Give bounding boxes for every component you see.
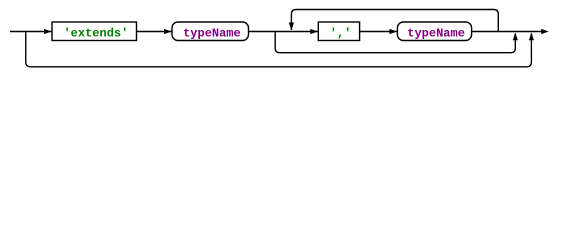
arrowhead into typeName 2 xyxy=(389,29,397,34)
wire: typeName 2 to end xyxy=(472,31,542,33)
wire: outer bypass (skip whole rule) xyxy=(26,32,532,67)
wire: 'extends' to typeName xyxy=(137,31,172,33)
nonterminal box typeName (second) xyxy=(397,22,471,41)
wire: loop-back top line xyxy=(291,10,498,32)
wire: start segment into 'extends' xyxy=(10,31,52,33)
arrowhead up (outer bypass rejoin) xyxy=(529,32,534,40)
arrowhead into 'extends' xyxy=(44,29,52,34)
wire: ',' to typeName 2 xyxy=(360,31,397,33)
wire: inner skip of loop group xyxy=(275,32,515,53)
arrowhead into typeName xyxy=(164,29,172,34)
wire: typeName to ',' box xyxy=(249,31,318,33)
terminal box ',' xyxy=(318,22,359,41)
nonterminal box typeName (first) xyxy=(172,22,249,41)
arrowhead into ',' xyxy=(310,29,318,34)
svg-text:typeName: typeName xyxy=(407,26,465,40)
svg-text:'extends': 'extends' xyxy=(63,26,128,40)
svg-text:',': ',' xyxy=(330,26,352,40)
terminal box 'extends' xyxy=(52,22,137,41)
arrowhead end of rule xyxy=(541,29,549,34)
arrowhead down (loop re-entry) xyxy=(289,23,294,31)
arrowhead up (inner skip rejoin) xyxy=(513,32,518,40)
svg-text:typeName: typeName xyxy=(183,26,241,40)
